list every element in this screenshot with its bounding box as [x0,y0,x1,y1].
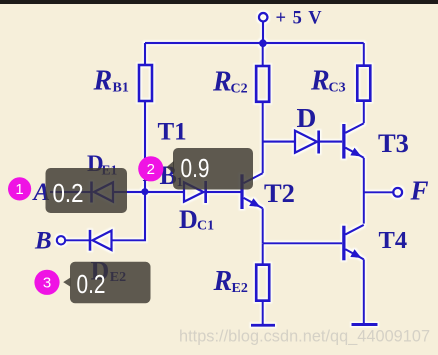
diode DE1 [90,182,93,203]
wire RC3 drop [363,43,365,66]
svg-text:T2: T2 [264,178,295,208]
transistor T3 [342,124,345,159]
svg-text:0.2: 0.2 [53,178,84,208]
transistor T2 [240,174,243,209]
tooltip 2 (0.9) [166,161,174,174]
svg-text:R: R [93,66,113,97]
wire top rail [145,42,364,44]
svg-text:R: R [212,67,232,98]
svg-text:T3: T3 [378,128,409,158]
svg-text:C2: C2 [231,82,248,97]
wire D to T3 base [319,141,343,143]
ground RE2 [251,324,275,327]
wire +5V stub [262,22,264,43]
svg-text:0.2: 0.2 [77,269,106,299]
svg-text:C3: C3 [329,81,346,96]
resistor RC2 [256,66,269,102]
wire DE2 to corner [112,192,146,240]
diode DE2 [89,230,92,251]
wire T3 emitter down to T4 collector [363,158,365,224]
wire DC1 to T2 base [206,191,241,193]
resistor RB1 [139,65,152,101]
svg-text:T1: T1 [158,118,187,145]
svg-text:R: R [213,266,233,297]
wire DE1 to DC1 [113,191,184,193]
svg-text:3: 3 [43,275,51,292]
wire B to DE2 [65,239,89,241]
wire T4 emitter to ground [363,259,365,324]
wire RB1 top drop [144,43,146,65]
top dark strip [0,0,438,4]
svg-text:+ 5 V: + 5 V [276,9,323,29]
wire RC3 to T3 collector [363,101,365,124]
wire RE2 top [262,243,264,264]
wire T2 emitter node to T4 base [263,242,343,244]
svg-text:T4: T4 [379,227,408,254]
marker badge 3 [34,270,59,295]
svg-text:R: R [310,66,330,97]
svg-text:1: 1 [15,181,23,198]
node P junction dot [141,188,148,195]
svg-text:0.9: 0.9 [181,153,210,183]
wire RB1 to node [144,101,146,192]
wire RE2 to ground [262,301,264,326]
svg-text:B1: B1 [113,81,129,96]
wire T2 collector up to RC2 [262,102,264,173]
svg-text:E2: E2 [232,281,248,296]
marker badge 2 [138,156,163,181]
svg-text:C1: C1 [197,219,214,234]
transistor T4 [342,226,345,261]
svg-text:D: D [297,102,317,133]
svg-text:F: F [410,176,429,206]
diode D [295,131,317,153]
resistor RE2 [256,265,269,301]
svg-text:B: B [34,228,52,255]
tooltip 3 (0.2) [63,278,70,287]
ground T4 [352,323,378,326]
power terminal +5V [259,13,267,21]
wire output to F [364,191,393,193]
resistor RC3 [357,66,370,101]
wire RC2 top [262,43,264,66]
input terminal B [57,236,65,244]
output terminal F [393,188,402,197]
wire A to DE1 [50,191,91,193]
svg-text:2: 2 [147,161,155,178]
wire branch to diode D [263,141,295,143]
svg-text:https://blog.csdn.net/qq_44009: https://blog.csdn.net/qq_44009107 [179,328,430,346]
diode DC1 [184,182,204,201]
tooltip 1 (0.2) [46,168,128,213]
junction dot +5V rail [259,39,267,47]
svg-text:D: D [179,205,198,234]
marker badge 1 [8,177,31,200]
